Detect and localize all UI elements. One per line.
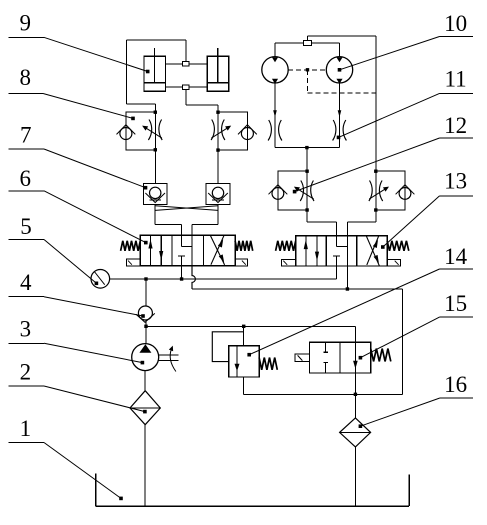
svg-text:6: 6 (20, 166, 32, 191)
svg-text:7: 7 (20, 123, 32, 148)
svg-text:8: 8 (20, 65, 32, 90)
svg-text:16: 16 (444, 372, 467, 397)
svg-text:5: 5 (20, 214, 32, 239)
svg-text:1: 1 (20, 416, 32, 441)
svg-text:15: 15 (444, 291, 467, 316)
svg-text:11: 11 (445, 67, 467, 92)
svg-text:9: 9 (20, 10, 32, 35)
svg-text:14: 14 (444, 244, 468, 269)
svg-text:4: 4 (20, 270, 32, 295)
svg-text:12: 12 (444, 113, 467, 138)
svg-text:2: 2 (20, 359, 32, 384)
svg-text:3: 3 (20, 317, 32, 342)
svg-text:13: 13 (444, 169, 467, 194)
svg-text:10: 10 (444, 11, 467, 36)
